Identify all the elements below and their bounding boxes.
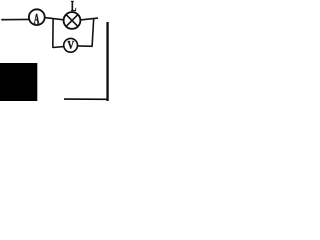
background <box>0 0 110 101</box>
wire ammeter to lamp <box>45 18 64 20</box>
wire bottom branch right <box>77 45 92 47</box>
wire lamp to top-right corner <box>80 18 98 20</box>
page border bottom line <box>64 98 108 100</box>
wire right vertical <box>92 18 94 46</box>
voltmeter label V <box>68 41 75 49</box>
lamp L circle <box>64 12 81 29</box>
node L label <box>71 1 76 11</box>
lamp X stroke 1 <box>66 15 77 26</box>
wire bottom branch left <box>53 46 64 49</box>
wire from left terminal to ammeter <box>2 18 29 20</box>
ammeter U-A circle <box>29 9 45 25</box>
wire left branch vertical <box>52 18 54 48</box>
page border right bar <box>106 22 108 101</box>
ammeter label A <box>34 14 39 24</box>
black photo corner block <box>0 63 37 101</box>
wire left lead with start tick <box>1 19 4 21</box>
voltmeter circle <box>64 38 78 52</box>
lamp X stroke 2 <box>66 15 77 26</box>
